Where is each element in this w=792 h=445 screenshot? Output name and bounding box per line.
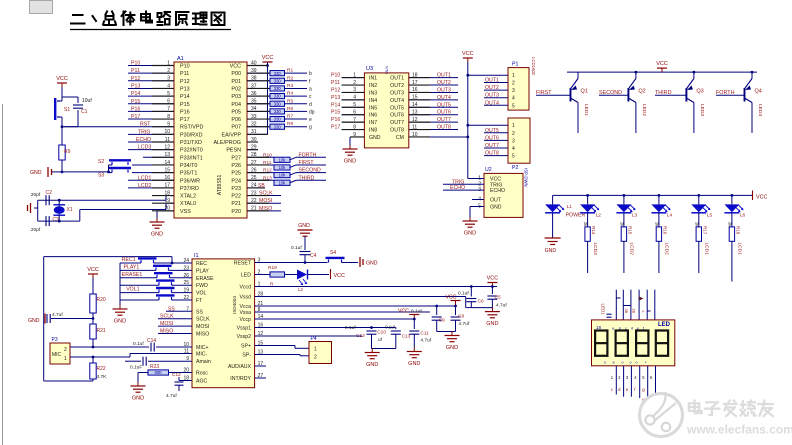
svg-text:L3: L3 — [632, 213, 638, 219]
svg-text:P37/RD: P37/RD — [180, 186, 199, 192]
svg-text:P12: P12 — [331, 87, 340, 93]
svg-text:P25: P25 — [231, 171, 241, 177]
svg-text:IN1: IN1 — [369, 76, 377, 82]
switch PLAY1 row PLAY — [120, 269, 156, 271]
svg-text:I1: I1 — [194, 253, 199, 259]
capacitor C11 4.7uf — [413, 319, 415, 329]
svg-text:VCC: VCC — [446, 295, 457, 301]
wire SCLK — [158, 318, 192, 320]
wire SP- to P4 — [255, 354, 300, 356]
MCU pin stubs black overdraw — [152, 65, 174, 67]
title underline — [70, 29, 231, 31]
wire VSS row 20 to ground — [157, 210, 174, 212]
wire Vccp net — [255, 318, 415, 320]
svg-text:0.1uf: 0.1uf — [385, 325, 395, 330]
svg-text:ALE/PROG: ALE/PROG — [213, 140, 241, 146]
capacitor C12 on AGC 4.7uf — [182, 380, 192, 382]
node SS — [166, 310, 192, 312]
crystal X1 — [58, 199, 61, 202]
svg-text:GND: GND — [545, 248, 557, 254]
svg-text:R23: R23 — [150, 364, 159, 370]
svg-text:SECOND: SECOND — [599, 90, 622, 96]
wire S2/S3 common to ground bus — [108, 165, 110, 172]
resistor R6 — [247, 110, 270, 112]
transistor Q2 PNP — [627, 88, 629, 102]
svg-text:C6: C6 — [478, 299, 484, 305]
wire P1 pin1 to VCC — [468, 74, 508, 76]
capacitor C15 on Amain — [125, 360, 141, 362]
svg-text:P14: P14 — [131, 91, 140, 97]
svg-text:Rosc: Rosc — [196, 371, 208, 377]
svg-text:R21: R21 — [97, 328, 106, 334]
wire MISO — [158, 333, 192, 335]
svg-text:P16: P16 — [331, 117, 340, 123]
svg-text:OUT: OUT — [490, 198, 502, 204]
svg-text:LCD1: LCD1 — [703, 243, 709, 256]
svg-text:L2: L2 — [596, 213, 602, 219]
svg-text:P04: P04 — [231, 102, 241, 108]
svg-text:THIRD: THIRD — [299, 175, 315, 181]
svg-text:FIRST: FIRST — [299, 160, 315, 166]
wire below R17 with net LCD1 — [698, 241, 700, 273]
svg-text:FIRST: FIRST — [536, 90, 552, 96]
svg-text:P26: P26 — [231, 163, 241, 169]
svg-text:330: 330 — [274, 86, 282, 91]
svg-text:OUT1: OUT1 — [390, 76, 404, 82]
svg-text:28: 28 — [631, 309, 636, 314]
svg-text:P13: P13 — [331, 95, 340, 101]
svg-text:IN6: IN6 — [369, 113, 377, 119]
LED L6 — [731, 195, 733, 204]
wire PSEN stub — [247, 149, 258, 151]
svg-text:OUT2: OUT2 — [485, 85, 499, 91]
ground decoupling 2 — [437, 331, 456, 333]
svg-text:L5: L5 — [707, 213, 713, 219]
svg-text:o: o — [604, 361, 606, 365]
svg-text:1: 1 — [314, 347, 317, 353]
svg-text:LED2: LED2 — [641, 104, 647, 116]
resistor R3 — [247, 87, 270, 89]
wire below R16 with net LCD2 — [658, 241, 660, 273]
wire U2 VCC pin1 — [468, 178, 484, 180]
svg-text:P15: P15 — [331, 110, 340, 116]
svg-text:ISD4004: ISD4004 — [232, 296, 237, 314]
svg-text:OUT5: OUT5 — [485, 128, 499, 134]
svg-text:LED4: LED4 — [757, 104, 763, 116]
wires P1 OUT1-OUT4 — [484, 82, 508, 84]
transistor Q3 PNP — [685, 88, 687, 102]
svg-text:VCC: VCC — [56, 76, 68, 82]
svg-text:10k: 10k — [279, 180, 287, 185]
svg-text:1: 1 — [512, 73, 515, 79]
U3 pin stubs black overdraw — [342, 77, 364, 79]
svg-text:0.1uf: 0.1uf — [133, 341, 144, 347]
svg-text:330: 330 — [274, 109, 282, 114]
svg-text:Vssd: Vssd — [239, 295, 251, 301]
ground decoupling 3 left — [372, 348, 396, 350]
wire Vcca net — [255, 305, 456, 307]
svg-text:P31/TXD: P31/TXD — [180, 140, 202, 146]
svg-text:GND: GND — [366, 261, 378, 267]
svg-text:Q1: Q1 — [581, 89, 588, 95]
wire SCLK row 23 — [247, 195, 281, 197]
svg-text:OUT5: OUT5 — [437, 102, 451, 108]
ground port after S4 — [359, 257, 361, 267]
resistor R2 — [247, 80, 270, 82]
svg-text:SS: SS — [168, 306, 175, 312]
power VCC after LED — [330, 269, 332, 279]
svg-text:R22: R22 — [97, 366, 106, 372]
svg-text:Q3: Q3 — [696, 89, 703, 95]
svg-text:P30/RXD: P30/RXD — [180, 132, 203, 138]
svg-text:ECHO: ECHO — [490, 188, 505, 194]
svg-text:P10: P10 — [180, 64, 190, 70]
svg-text:a: a — [309, 86, 312, 92]
svg-text:RST: RST — [140, 122, 151, 128]
svg-text:P4: P4 — [311, 336, 317, 342]
wire U2 ECHO pin3 — [443, 189, 484, 191]
svg-text:GND: GND — [114, 319, 126, 325]
capacitor C10 0.1uf — [370, 326, 373, 329]
svg-text:SCLK: SCLK — [160, 314, 174, 320]
svg-text:GND: GND — [408, 361, 420, 367]
wire VCC rail for transistors — [567, 71, 757, 73]
switch ERASE1 row ERASE — [120, 277, 157, 279]
switch S row FT — [120, 299, 159, 301]
svg-text:OUT3: OUT3 — [390, 90, 404, 96]
watermark text dianzifashaoyou — [694, 401, 696, 414]
wire Vssp1 net — [255, 327, 396, 329]
svg-text:P17: P17 — [131, 114, 140, 120]
svg-text:P11: P11 — [131, 68, 140, 74]
wire P2 pin1 to VCC — [468, 124, 508, 126]
wire VCC rail for LEDs — [553, 194, 753, 196]
wire TRIG row 10 — [128, 133, 174, 135]
svg-text:Vssp2: Vssp2 — [237, 334, 252, 340]
svg-text:4.7uf: 4.7uf — [496, 303, 507, 309]
svg-text:OUT2: OUT2 — [390, 83, 404, 89]
svg-text:EA/VPP: EA/VPP — [222, 132, 242, 138]
node RST row 9 — [62, 126, 174, 128]
svg-text:C13: C13 — [402, 334, 411, 340]
svg-text:C9: C9 — [439, 318, 445, 324]
svg-text:AGC: AGC — [196, 379, 207, 385]
wire SP+ to P4 — [255, 345, 295, 347]
svg-text:OUT3: OUT3 — [437, 87, 451, 93]
svg-text:GND: GND — [486, 321, 498, 327]
ground under L1 — [552, 213, 554, 238]
svg-text:P15: P15 — [180, 102, 190, 108]
svg-text:CM: CM — [396, 135, 404, 141]
svg-text:A1: A1 — [177, 56, 184, 62]
resistor R16 — [658, 213, 660, 227]
svg-text:dp: dp — [309, 109, 315, 115]
resistor R1 — [247, 72, 270, 74]
svg-text:P3: P3 — [52, 337, 58, 343]
svg-text:C2: C2 — [46, 190, 53, 196]
ground crystal left — [37, 200, 39, 221]
wire U2 TRIG pin2 — [443, 183, 484, 185]
wire base net FORTH — [716, 94, 745, 96]
LED L1 — [552, 195, 554, 204]
wire row 13 stub — [143, 156, 174, 158]
wire below R18 with net LCD1 — [731, 241, 733, 281]
svg-text:+: + — [645, 361, 647, 365]
svg-text:LCD2: LCD2 — [663, 243, 669, 256]
svg-text:ULN: ULN — [384, 66, 389, 74]
svg-text:PLAY1: PLAY1 — [124, 264, 140, 270]
svg-text:S4: S4 — [330, 250, 336, 256]
svg-text:R14: R14 — [591, 226, 596, 235]
power VCC transistor rail — [661, 68, 663, 72]
svg-text:OUT3: OUT3 — [485, 93, 499, 99]
capacitor C3 20pf — [45, 216, 47, 226]
svg-text:IN4: IN4 — [369, 98, 377, 104]
wire U2 OUT pin4 stub — [472, 199, 484, 201]
svg-text:2: 2 — [512, 81, 515, 87]
svg-text:330: 330 — [274, 78, 282, 83]
svg-text:P27: P27 — [231, 155, 241, 161]
svg-text:0.1uf: 0.1uf — [411, 309, 422, 315]
resistor R18 — [731, 213, 733, 227]
svg-text:d: d — [631, 327, 633, 331]
power VCC right bracket of LED rail — [752, 191, 754, 201]
svg-text:C4: C4 — [310, 253, 317, 259]
resistor R17 — [698, 213, 700, 227]
svg-text:uf: uf — [378, 337, 383, 343]
digit 8 x4 — [595, 331, 607, 356]
svg-text:4.7uf: 4.7uf — [52, 312, 63, 318]
svg-text:MIC+: MIC+ — [196, 345, 209, 351]
power VCC mic bias — [92, 274, 94, 278]
svg-text:10k: 10k — [279, 157, 287, 162]
wires U3 inputs P10-P17 — [342, 77, 365, 79]
svg-text:OUT2: OUT2 — [437, 80, 451, 86]
svg-text:P2: P2 — [512, 165, 518, 171]
capacitor C13 — [395, 328, 397, 330]
svg-text:P11: P11 — [180, 71, 189, 77]
svg-text:P13: P13 — [131, 83, 140, 89]
svg-text:SS: SS — [196, 309, 203, 315]
svg-text:4.7uf: 4.7uf — [166, 393, 177, 399]
svg-text:C5: C5 — [495, 295, 501, 301]
svg-text:R17: R17 — [702, 226, 707, 235]
svg-text:SECOND: SECOND — [299, 168, 321, 174]
resistor R19 on LED pin — [255, 274, 270, 276]
LED L3 — [623, 195, 625, 204]
svg-text:LCD1: LCD1 — [736, 243, 742, 256]
svg-text:OUT1: OUT1 — [485, 78, 499, 84]
svg-text:REC1: REC1 — [122, 257, 136, 263]
svg-text:Q4: Q4 — [755, 89, 762, 95]
wires P2 OUT5-OUT8 — [484, 132, 508, 134]
svg-text:P14: P14 — [331, 102, 340, 108]
switch S row FWD — [120, 284, 159, 286]
node SB row 24 — [247, 187, 265, 189]
svg-text:10uf: 10uf — [82, 98, 92, 104]
resistor R22 — [92, 357, 94, 363]
connector P2 body — [508, 118, 530, 163]
svg-text:P16: P16 — [131, 106, 140, 112]
svg-text:330: 330 — [274, 94, 282, 99]
svg-text:P20: P20 — [231, 209, 241, 215]
svg-text:IN7: IN7 — [369, 120, 377, 126]
svg-text:OUT4: OUT4 — [390, 98, 404, 104]
wire LCD1 row 16 — [128, 179, 174, 181]
svg-text:VCC: VCC — [462, 51, 474, 57]
svg-text:4.7K: 4.7K — [97, 374, 108, 380]
svg-text:R18: R18 — [735, 226, 740, 235]
svg-text:P36/WR: P36/WR — [180, 178, 200, 184]
toolbar gray box top-left — [30, 1, 53, 14]
svg-text:g: g — [309, 125, 312, 131]
svg-text:o: o — [622, 361, 624, 365]
svg-text:VCC: VCC — [756, 195, 767, 201]
svg-text:P07: P07 — [231, 125, 241, 131]
svg-text:www.elecfans.com: www.elecfans.com — [686, 423, 792, 437]
svg-text:P17: P17 — [180, 117, 190, 123]
svg-text:4.7uf: 4.7uf — [420, 338, 431, 344]
switch REC1 row REC — [120, 262, 141, 264]
power VCC decoupling 1 — [491, 283, 493, 287]
svg-text:Q2: Q2 — [638, 89, 645, 95]
svg-text:P06: P06 — [231, 117, 241, 123]
svg-text:4: 4 — [512, 146, 515, 152]
svg-text:ERASE: ERASE — [196, 276, 214, 282]
svg-text:OUT6: OUT6 — [485, 135, 499, 141]
svg-text:GND: GND — [490, 205, 502, 211]
svg-text:LCD2: LCD2 — [138, 183, 151, 189]
wire Vccd net to VCC — [255, 286, 497, 288]
wire loop bottom — [44, 380, 93, 382]
wire MIC- net — [70, 356, 130, 358]
svg-text:GND: GND — [298, 223, 310, 229]
svg-text:OUT7: OUT7 — [437, 117, 451, 123]
svg-text:S1: S1 — [64, 107, 70, 113]
svg-text:P11: P11 — [331, 80, 340, 86]
power VCC top right of MCU — [267, 62, 269, 66]
svg-text:LCD2: LCD2 — [628, 243, 634, 256]
wires into 7-seg display top — [615, 290, 617, 320]
capacitor C8 4.7uf — [455, 306, 457, 315]
svg-text:C14: C14 — [147, 338, 156, 344]
svg-text:P34/T0: P34/T0 — [180, 163, 197, 169]
resistor R11 — [247, 164, 274, 166]
wire Vssp2 net — [255, 335, 362, 337]
svg-text:a: a — [612, 327, 614, 331]
svg-text:C3: C3 — [52, 217, 59, 223]
resistor R21 — [90, 324, 96, 339]
wire ground bus to switches — [62, 171, 109, 173]
svg-text:LED1: LED1 — [583, 104, 589, 116]
svg-text:GND: GND — [369, 135, 381, 141]
LED L5 — [698, 195, 700, 204]
wire MIC+ net with capacitor C14 — [70, 346, 149, 348]
svg-text:c: c — [611, 387, 613, 392]
svg-text:OUT7: OUT7 — [485, 143, 499, 149]
svg-text:X1: X1 — [67, 207, 73, 213]
svg-text:C1: C1 — [81, 109, 88, 115]
wires out of 7-seg display bottom — [615, 366, 617, 395]
svg-text:330: 330 — [274, 124, 282, 129]
svg-text:LCD1602: LCD1602 — [531, 57, 536, 76]
svg-text:OUT5: OUT5 — [390, 105, 404, 111]
svg-text:Vccp: Vccp — [239, 317, 251, 323]
capacitor C1 10uf — [62, 96, 78, 98]
svg-text:4.7uf: 4.7uf — [459, 321, 470, 327]
svg-text:GND: GND — [30, 170, 42, 176]
svg-text:VCC: VCC — [656, 61, 668, 67]
svg-text:L4: L4 — [667, 213, 673, 219]
wire MOSI — [158, 325, 192, 327]
svg-text:S3: S3 — [98, 173, 104, 179]
wire MCU left port P1 rows 1-8 with labels — [128, 65, 174, 67]
svg-text:U2: U2 — [485, 167, 492, 173]
svg-text:SP-: SP- — [242, 353, 251, 359]
ground decoupling 3 right — [413, 348, 415, 352]
capacitor C9 — [435, 305, 438, 308]
svg-text:P15: P15 — [131, 99, 140, 105]
svg-text:R15: R15 — [627, 226, 632, 235]
left page border line — [2, 104, 4, 445]
svg-text:OUT8: OUT8 — [485, 151, 499, 157]
svg-text:MOSI: MOSI — [160, 321, 173, 327]
wire base net SECOND — [599, 94, 628, 96]
LED L4 — [658, 195, 660, 204]
svg-text:OUT6: OUT6 — [437, 110, 451, 116]
svg-text:OUT7: OUT7 — [390, 120, 404, 126]
op-amp I1 ISD4004 voice chip body — [192, 259, 255, 388]
svg-text:MIC-: MIC- — [196, 352, 208, 358]
svg-text:C10: C10 — [377, 330, 386, 336]
svg-text:R9: R9 — [64, 149, 71, 155]
svg-text:VCC: VCC — [398, 309, 409, 315]
svg-text:3: 3 — [512, 88, 515, 94]
op-amp U2 ultrasonic module body — [484, 173, 523, 217]
resistor R5 — [247, 103, 270, 105]
svg-text:OUT4: OUT4 — [485, 100, 499, 106]
svg-text:U3: U3 — [366, 66, 373, 72]
wire LCD2 row 17 — [128, 187, 174, 189]
capacitor C4 0.1uf — [304, 236, 306, 250]
svg-text:L1: L1 — [567, 204, 573, 210]
svg-text:VOL1: VOL1 — [126, 287, 139, 293]
svg-text:C8: C8 — [458, 314, 464, 320]
wire Vssd net to ground bus — [255, 296, 466, 298]
svg-text:P35/T1: P35/T1 — [180, 171, 197, 177]
svg-text:IN8: IN8 — [369, 128, 377, 134]
svg-text:GND: GND — [464, 231, 476, 237]
svg-text:Vccd: Vccd — [239, 285, 251, 291]
svg-text:L2: L2 — [298, 287, 304, 292]
svg-text:P1: P1 — [512, 62, 518, 68]
capacitor C5 4.7uf — [491, 287, 493, 295]
svg-text:RESET: RESET — [234, 261, 252, 267]
resistor R13 — [247, 179, 274, 181]
svg-text:0.1uf: 0.1uf — [345, 325, 356, 331]
svg-text:b: b — [309, 71, 312, 77]
wire ALE/PROG stub — [247, 141, 258, 143]
svg-text:OUT6: OUT6 — [390, 113, 404, 119]
wire Vssa stub — [255, 311, 430, 313]
wire below R15 with net LCD2 — [623, 241, 625, 273]
ground under U2 — [470, 206, 484, 208]
svg-text:P21: P21 — [231, 201, 241, 207]
svg-text:P17: P17 — [331, 125, 340, 131]
svg-text:XTAL0: XTAL0 — [180, 201, 196, 207]
svg-text:1: 1 — [512, 123, 515, 129]
svg-text:330: 330 — [274, 117, 282, 122]
